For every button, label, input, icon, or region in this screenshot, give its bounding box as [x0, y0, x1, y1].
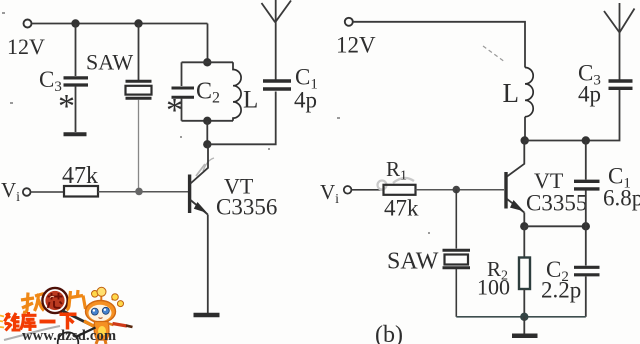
- wire: rail down to SAW: [138, 24, 140, 81]
- legs: [96, 340, 106, 344]
- inductor L (right): [525, 68, 533, 117]
- antenna balls: [92, 291, 99, 298]
- junction node tank top: [203, 58, 211, 66]
- wire: top rail (right): [353, 22, 525, 68]
- wire: ground stub: [523, 317, 525, 334]
- junction node ground tap: [520, 313, 528, 321]
- wire: emitter to emitter node: [523, 213, 525, 227]
- 下: [60, 314, 77, 329]
- svg-text:47k: 47k: [62, 163, 98, 189]
- capacitor C2 (right): [574, 267, 600, 275]
- 12V supply terminal (right): [345, 18, 353, 26]
- junction node collector: [203, 140, 211, 148]
- SAW resonator (right): [443, 250, 471, 267]
- svg-text:2.2p: 2.2p: [541, 278, 581, 303]
- wire: bottom rail (right): [456, 316, 586, 318]
- body: [94, 322, 109, 341]
- transistor VT (right) base bar: [504, 172, 507, 209]
- wire: SAW branch lower: [455, 269, 457, 317]
- face: [89, 305, 112, 321]
- svg-text:VT: VT: [534, 168, 564, 193]
- wire: tank loop left lower: [181, 98, 183, 121]
- wire: collector node to C1 branch: [207, 92, 275, 145]
- watermark character 找 (orange): [21, 293, 44, 313]
- wire: Vi to resistor: [31, 191, 65, 193]
- svg-text:L: L: [503, 78, 520, 108]
- transistor VT (right) emitter lead with arrow: [507, 199, 524, 213]
- antenna mast (right): [619, 3, 621, 80]
- svg-text:4p: 4p: [578, 82, 601, 107]
- ground (left): [194, 313, 220, 318]
- wire: rail corner down to tank: [207, 24, 209, 63]
- wire: SAW branch upper (right): [455, 190, 457, 249]
- wire: R1 to base: [416, 189, 505, 191]
- transistor VT (right) collector lead: [507, 141, 524, 177]
- resistor R1: [384, 185, 416, 195]
- wire: R2 lower lead: [523, 289, 525, 317]
- junction node base/SAW: [135, 188, 143, 196]
- watermark character 片 (orange): [67, 290, 86, 310]
- wire: C1 branch upper: [585, 141, 587, 180]
- svg-text:SAW: SAW: [86, 50, 133, 75]
- wire: R2 upper lead: [523, 226, 525, 257]
- watermark text 维库一下 (red-orange strokes): [5, 312, 77, 331]
- wire: C2 branch upper: [585, 226, 587, 265]
- svg-text:*: *: [166, 92, 183, 129]
- svg-text:C3356: C3356: [216, 195, 277, 220]
- junction node base/SAW (right): [453, 186, 461, 194]
- junction node at C3 branch: [71, 19, 79, 27]
- junction node L/collector: [521, 136, 529, 144]
- wire: emitter row: [524, 225, 586, 227]
- watermark lens (held magnifier): [58, 328, 96, 344]
- capacitor C3 (right): [609, 81, 633, 88]
- wire: resistor to base: [98, 191, 188, 193]
- svg-text:www.dzsd.com: www.dzsd.com: [22, 328, 116, 344]
- ground bar under C3: [64, 132, 87, 136]
- scan artifact dashes: [483, 46, 505, 62]
- inductor L (left tank): [233, 62, 241, 121]
- wire: C3 to ground stub: [75, 86, 77, 132]
- antenna V arms (right): [604, 9, 635, 33]
- ground (right): [512, 334, 538, 339]
- svg-text:12V: 12V: [336, 33, 376, 58]
- capacitor C2 (left tank): [172, 88, 195, 97]
- input terminal Vi (left): [23, 188, 31, 196]
- capacitor C1 (right): [574, 181, 600, 189]
- watermark yellow speed ticks: [0, 316, 4, 328]
- capacitor C1 (left): [263, 81, 291, 89]
- scan ghost artifact near VT left: [196, 158, 214, 176]
- wire: Vi to R1: [352, 189, 384, 191]
- svg-text:6.8p: 6.8p: [603, 186, 640, 211]
- watermark mascot: [86, 287, 133, 344]
- mouth: [99, 317, 103, 320]
- antenna mast (left): [275, 0, 277, 80]
- scan speckles: [2, 12, 430, 234]
- wire: rail down to C3: [75, 24, 77, 77]
- svg-text:*: *: [58, 88, 75, 125]
- SAW resonator (left): [126, 81, 152, 98]
- junction node at SAW branch: [134, 19, 142, 27]
- wire: tank loop top: [182, 61, 234, 63]
- svg-text:12V: 12V: [7, 34, 45, 59]
- transistor VT (left) emitter lead with arrow: [191, 200, 208, 215]
- wire: C1 branch lower: [585, 191, 587, 227]
- wire: top supply rail (left circuit): [32, 23, 208, 25]
- svg-text:47k: 47k: [384, 196, 419, 221]
- svg-text:SAW: SAW: [387, 249, 439, 275]
- wire: emitter down to ground: [207, 215, 209, 314]
- svg-text:4p: 4p: [294, 88, 317, 113]
- junction node tank bottom: [203, 117, 211, 125]
- junction node C1 bottom: [582, 222, 590, 230]
- resistor 47k (left): [64, 186, 98, 197]
- eyes: [91, 308, 98, 315]
- svg-text:L: L: [243, 87, 258, 114]
- junction node emitter: [520, 222, 528, 230]
- 库: [21, 312, 37, 331]
- 12V supply terminal (left): [24, 20, 32, 28]
- watermark pointer stick: [62, 311, 97, 329]
- transistor VT (left) collector lead: [191, 144, 209, 183]
- svg-text:(b): (b): [375, 322, 403, 344]
- antenna stalks: [95, 294, 120, 306]
- resistor R2: [519, 258, 530, 290]
- wire: SAW down to base node: [138, 100, 140, 192]
- input terminal Vi (right): [344, 186, 352, 194]
- junction node C1 top: [582, 136, 590, 144]
- wire: L to collector node: [524, 117, 526, 141]
- wire: tank loop bottom: [182, 120, 234, 122]
- 一: [40, 320, 56, 324]
- wire: tank bottom to collector node: [206, 121, 208, 145]
- watermark grey brush swoosh: [4, 326, 60, 340]
- watermark magnifier ring over 芯: [42, 288, 67, 313]
- capacitor C3 (left): [64, 78, 89, 85]
- scan ghost artifact near R1: [378, 178, 415, 190]
- antenna V arms (left): [262, 1, 292, 23]
- svg-text:C3355: C3355: [526, 191, 587, 216]
- transistor VT (left) base bar: [188, 175, 191, 214]
- 维: [5, 313, 21, 331]
- svg-text:100: 100: [477, 275, 510, 300]
- wire: node row to antenna branch: [525, 90, 620, 141]
- head: [86, 301, 116, 323]
- wire: C2 branch lower: [585, 277, 587, 317]
- right arm with red pencil: [109, 324, 114, 326]
- wire: tank loop left upper: [181, 62, 183, 86]
